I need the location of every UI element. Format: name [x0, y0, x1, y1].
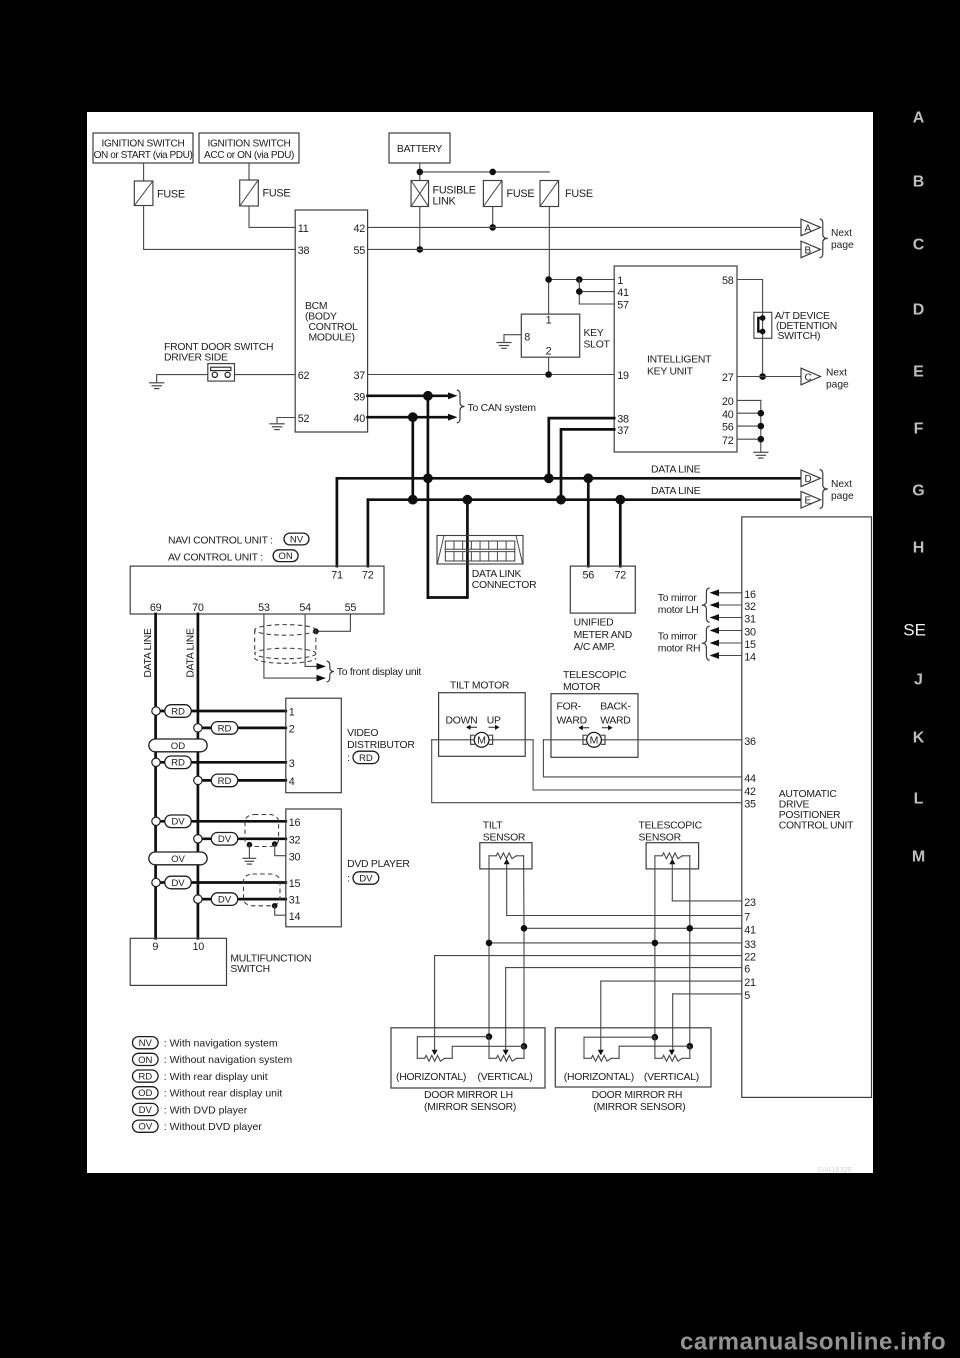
svg-text:SLOT: SLOT	[584, 340, 611, 351]
svg-text:72: 72	[615, 570, 627, 582]
svg-text:2: 2	[546, 346, 552, 358]
svg-text:5: 5	[744, 990, 750, 1002]
svg-text:52: 52	[298, 413, 310, 425]
svg-text:21: 21	[744, 977, 756, 989]
svg-text:RD: RD	[171, 706, 185, 717]
svg-text:3: 3	[289, 758, 295, 770]
svg-text:55: 55	[345, 602, 357, 614]
svg-text:LINK: LINK	[433, 196, 457, 208]
svg-text:NV: NV	[139, 1038, 153, 1049]
svg-text:15: 15	[744, 639, 756, 651]
svg-text:16: 16	[744, 589, 756, 601]
svg-text:page: page	[831, 491, 854, 502]
svg-text:69: 69	[150, 602, 162, 614]
svg-text:DV: DV	[218, 834, 232, 845]
svg-text:IGNITION SWITCH: IGNITION SWITCH	[102, 138, 185, 149]
svg-text:22: 22	[744, 952, 756, 964]
svg-text:CONTROL: CONTROL	[309, 322, 359, 333]
svg-text::: :	[347, 753, 350, 764]
svg-text:(HORIZONTAL): (HORIZONTAL)	[564, 1072, 634, 1083]
svg-text:UP: UP	[487, 715, 501, 726]
svg-text:9: 9	[152, 941, 158, 953]
svg-text:2: 2	[289, 724, 295, 736]
svg-text:OD: OD	[171, 741, 185, 752]
svg-text:32: 32	[289, 834, 301, 846]
svg-text:AV CONTROL UNIT :: AV CONTROL UNIT :	[168, 553, 263, 564]
svg-text:DV: DV	[218, 895, 232, 906]
svg-text:motor LH: motor LH	[658, 605, 699, 616]
svg-text:NV: NV	[290, 534, 304, 545]
svg-text:1: 1	[289, 707, 295, 719]
svg-text:page: page	[826, 379, 849, 390]
svg-text:72: 72	[722, 435, 734, 447]
svg-text:40: 40	[353, 413, 365, 425]
svg-text:(VERTICAL): (VERTICAL)	[644, 1072, 699, 1083]
svg-text:DATA LINE: DATA LINE	[143, 628, 154, 678]
svg-text:31: 31	[289, 895, 301, 907]
svg-text:AUTOMATIC: AUTOMATIC	[779, 789, 838, 800]
svg-text:F: F	[914, 421, 924, 438]
svg-text:15: 15	[289, 878, 301, 890]
svg-text:A: A	[913, 110, 925, 127]
svg-text:DOWN: DOWN	[446, 715, 478, 726]
svg-text:: With navigation system: : With navigation system	[164, 1038, 278, 1050]
svg-text:A: A	[805, 223, 812, 234]
svg-text:(BODY: (BODY	[305, 312, 337, 323]
svg-text:Next: Next	[826, 367, 847, 378]
svg-text:A/C AMP.: A/C AMP.	[574, 642, 616, 653]
svg-text:(MIRROR SENSOR): (MIRROR SENSOR)	[593, 1102, 685, 1113]
svg-text:DRIVER SIDE: DRIVER SIDE	[164, 353, 228, 364]
svg-text:(HORIZONTAL): (HORIZONTAL)	[396, 1072, 466, 1083]
svg-text:37: 37	[353, 370, 365, 382]
svg-text:DATA LINK: DATA LINK	[472, 569, 522, 580]
svg-text:DOOR MIRROR RH: DOOR MIRROR RH	[592, 1090, 683, 1101]
svg-text:Next: Next	[831, 228, 852, 239]
svg-text:16: 16	[289, 817, 301, 829]
svg-text:H: H	[913, 540, 925, 557]
svg-text:56: 56	[722, 422, 734, 434]
svg-text:FUSE: FUSE	[263, 188, 291, 200]
svg-text:41: 41	[617, 287, 629, 299]
svg-text:42: 42	[744, 786, 756, 798]
svg-text:D: D	[913, 302, 925, 319]
svg-text:INTELLIGENT: INTELLIGENT	[647, 354, 712, 365]
svg-text:: With DVD player: : With DVD player	[164, 1104, 248, 1116]
svg-text:(MIRROR SENSOR): (MIRROR SENSOR)	[424, 1102, 516, 1113]
svg-text:38: 38	[298, 245, 310, 257]
svg-text:39: 39	[353, 391, 365, 403]
svg-text:FUSE: FUSE	[157, 188, 185, 200]
svg-text::: :	[347, 874, 350, 885]
svg-text:7: 7	[744, 912, 750, 924]
svg-text:: Without navigation system: : Without navigation system	[164, 1054, 293, 1066]
svg-text:NAVI CONTROL UNIT :: NAVI CONTROL UNIT :	[168, 535, 273, 546]
svg-text:SENSOR: SENSOR	[483, 833, 526, 844]
svg-text:RD: RD	[218, 723, 232, 734]
svg-text:14: 14	[744, 652, 756, 664]
svg-text:27: 27	[722, 372, 734, 384]
svg-text:IGNITION SWITCH: IGNITION SWITCH	[208, 138, 291, 149]
svg-text:ON: ON	[138, 1055, 152, 1066]
svg-text:METER AND: METER AND	[574, 630, 632, 641]
svg-text:37: 37	[617, 425, 629, 437]
svg-text:B: B	[913, 174, 925, 191]
svg-text:POSITIONER: POSITIONER	[779, 810, 841, 821]
svg-text:To mirror: To mirror	[658, 632, 698, 643]
svg-text:B: B	[805, 245, 812, 256]
svg-text:To CAN system: To CAN system	[468, 403, 536, 414]
svg-text:40: 40	[722, 409, 734, 421]
svg-text:31: 31	[744, 614, 756, 626]
svg-text:30: 30	[744, 627, 756, 639]
svg-text:DATA LINE: DATA LINE	[651, 464, 701, 475]
svg-text:E: E	[805, 496, 812, 507]
svg-text:RD: RD	[171, 758, 185, 769]
svg-text:44: 44	[744, 773, 756, 785]
svg-text:ACC or ON (via PDU): ACC or ON (via PDU)	[204, 150, 294, 161]
svg-text:SWITCH: SWITCH	[230, 964, 269, 975]
svg-text:FUSE: FUSE	[507, 188, 535, 200]
svg-text:CONTROL UNIT: CONTROL UNIT	[779, 821, 854, 832]
svg-text:58: 58	[722, 275, 734, 287]
svg-text:11: 11	[298, 223, 309, 235]
svg-text:RD: RD	[359, 753, 373, 764]
svg-text:57: 57	[617, 300, 629, 312]
svg-text:RD: RD	[218, 776, 232, 787]
svg-text:62: 62	[298, 370, 310, 382]
svg-text:32: 32	[744, 601, 756, 613]
svg-text:35: 35	[744, 799, 756, 811]
svg-text:DV: DV	[171, 878, 185, 889]
svg-text:70: 70	[192, 602, 204, 614]
svg-text:CONNECTOR: CONNECTOR	[472, 580, 537, 591]
svg-text:DATA LINE: DATA LINE	[186, 628, 197, 678]
svg-text:C: C	[805, 372, 812, 383]
svg-text:DV: DV	[139, 1105, 153, 1116]
svg-text:54: 54	[299, 602, 311, 614]
svg-text:FOR-: FOR-	[557, 701, 581, 712]
svg-text:SIIA1832E: SIIA1832E	[817, 1165, 853, 1174]
svg-text:55: 55	[353, 245, 365, 257]
svg-text:DOOR MIRROR LH: DOOR MIRROR LH	[424, 1090, 513, 1101]
svg-text:41: 41	[744, 924, 756, 936]
svg-text:23: 23	[744, 897, 756, 909]
svg-text:E: E	[913, 364, 924, 381]
svg-text:6: 6	[744, 964, 750, 976]
svg-text:: Without rear display unit: : Without rear display unit	[164, 1088, 283, 1100]
svg-text:M: M	[590, 735, 599, 747]
svg-text:To front display unit: To front display unit	[337, 667, 422, 678]
svg-text:DV: DV	[359, 873, 373, 884]
svg-text:56: 56	[583, 570, 595, 582]
svg-text:To mirror: To mirror	[658, 593, 698, 604]
svg-text:OV: OV	[138, 1122, 152, 1133]
svg-text:14: 14	[289, 911, 301, 923]
svg-text:SE: SE	[903, 620, 926, 639]
svg-text:: Without DVD player: : Without DVD player	[164, 1121, 263, 1133]
svg-text:DATA LINE: DATA LINE	[651, 486, 701, 497]
svg-text:BCM: BCM	[305, 301, 327, 312]
svg-text:SENSOR: SENSOR	[639, 833, 682, 844]
svg-text:MODULE): MODULE)	[309, 333, 355, 344]
svg-text:33: 33	[744, 939, 756, 951]
svg-text:D: D	[805, 474, 812, 485]
svg-text:: With rear display unit: : With rear display unit	[164, 1071, 268, 1083]
svg-text:53: 53	[258, 602, 270, 614]
svg-text:C: C	[913, 237, 925, 254]
svg-text:4: 4	[289, 776, 295, 788]
svg-text:71: 71	[331, 570, 343, 582]
svg-text:M: M	[477, 735, 486, 747]
svg-text:KEY UNIT: KEY UNIT	[647, 366, 694, 377]
svg-text:FUSE: FUSE	[565, 188, 593, 200]
svg-text:DRIVE: DRIVE	[779, 800, 810, 811]
svg-text:BATTERY: BATTERY	[397, 144, 443, 155]
svg-text:1: 1	[617, 275, 623, 287]
svg-text:1: 1	[546, 315, 552, 327]
svg-text:DVD PLAYER: DVD PLAYER	[347, 859, 410, 870]
svg-text:Next: Next	[831, 479, 852, 490]
svg-text:ON: ON	[278, 551, 292, 562]
svg-text:G: G	[912, 483, 924, 500]
svg-text:carmanualsonline.info: carmanualsonline.info	[680, 1329, 946, 1356]
svg-text:TELESCOPIC: TELESCOPIC	[639, 820, 703, 831]
svg-text:72: 72	[362, 570, 374, 582]
svg-text:motor RH: motor RH	[658, 644, 700, 655]
svg-text:8: 8	[524, 332, 530, 344]
svg-text:KEY: KEY	[584, 328, 604, 339]
svg-text:UNIFIED: UNIFIED	[574, 618, 614, 629]
svg-text:FUSIBLE: FUSIBLE	[433, 184, 476, 196]
svg-text:MOTOR: MOTOR	[563, 682, 601, 693]
svg-text:30: 30	[289, 851, 301, 863]
svg-text:TILT: TILT	[483, 820, 503, 831]
svg-text:20: 20	[722, 396, 734, 408]
svg-text:TELESCOPIC: TELESCOPIC	[563, 670, 627, 681]
svg-text:42: 42	[353, 223, 365, 235]
svg-text:ON or START (via PDU): ON or START (via PDU)	[94, 150, 193, 161]
svg-text:FRONT DOOR SWITCH: FRONT DOOR SWITCH	[164, 342, 273, 353]
svg-text:SWITCH): SWITCH)	[778, 331, 821, 342]
svg-text:38: 38	[617, 414, 629, 426]
svg-text:RD: RD	[138, 1072, 152, 1083]
svg-text:36: 36	[744, 736, 756, 748]
svg-text:DV: DV	[171, 817, 185, 828]
svg-text:DISTRIBUTOR: DISTRIBUTOR	[347, 740, 415, 751]
svg-text:BACK-: BACK-	[600, 701, 631, 712]
svg-text:K: K	[913, 730, 925, 747]
svg-text:VIDEO: VIDEO	[347, 728, 378, 739]
svg-text:10: 10	[193, 941, 205, 953]
svg-text:OD: OD	[138, 1088, 152, 1099]
svg-text:WARD: WARD	[557, 715, 587, 726]
svg-text:M: M	[912, 849, 925, 866]
svg-text:MULTIFUNCTION: MULTIFUNCTION	[230, 953, 311, 964]
svg-text:WARD: WARD	[600, 715, 630, 726]
svg-text:TILT MOTOR: TILT MOTOR	[450, 681, 510, 692]
svg-text:OV: OV	[171, 854, 185, 865]
svg-text:J: J	[914, 672, 923, 689]
svg-text:L: L	[914, 791, 924, 808]
svg-text:page: page	[831, 240, 854, 251]
svg-text:19: 19	[617, 370, 629, 382]
svg-text:(VERTICAL): (VERTICAL)	[478, 1072, 533, 1083]
